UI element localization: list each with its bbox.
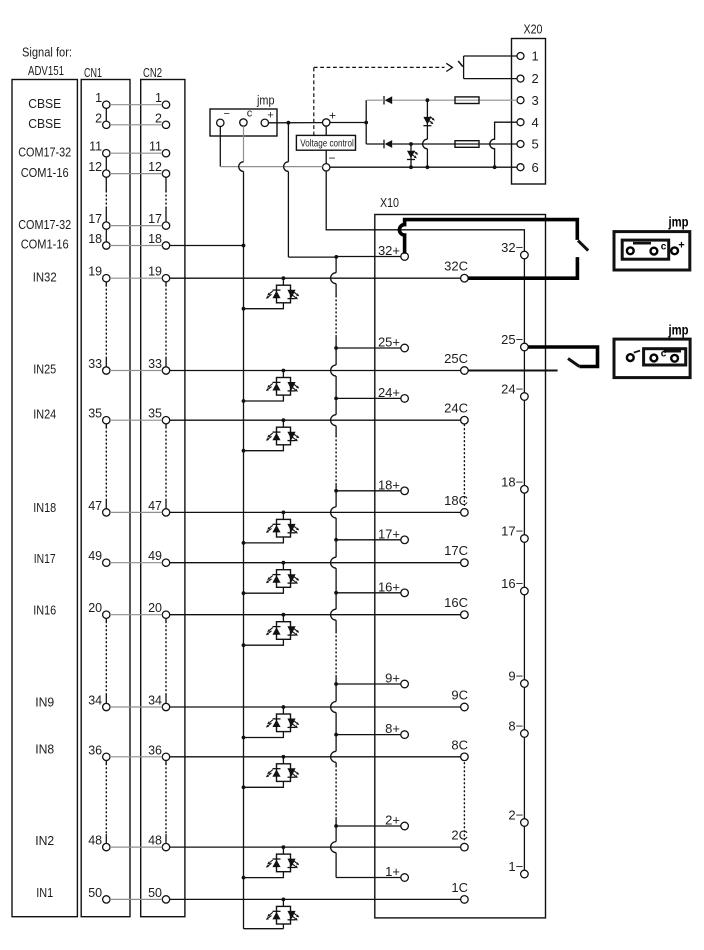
dotted continuation CN1 35..47 [105,424,107,427]
wire jmp- down [219,127,221,167]
svg-text:+: + [678,240,684,252]
wire CN1-12 to CN2-12 [110,173,162,175]
jumper legend jmp (minus-c position) [614,215,690,271]
X20 pin 5 [517,141,524,148]
svg-text:1: 1 [155,91,162,105]
wire CN1-36 to CN2-36 [110,756,162,758]
wire IN row to 9C [170,706,461,708]
svg-text:32C: 32C [444,259,468,274]
connector CN2 box [141,80,185,917]
voltage control box [296,135,355,150]
+ bus bend to 1+ [336,877,401,879]
svg-text:+: + [329,109,336,123]
wire X20-5 [366,143,384,145]
svg-text:49: 49 [88,549,102,563]
wire CN1-11 to CN2-11 [110,152,162,154]
wire IN row to 16C [170,614,461,616]
jumper header jmp (left) [210,109,277,136]
X20 pin 3 [517,97,524,104]
wire CN1-48 to CN2-48 [110,846,162,848]
svg-text:17−: 17− [501,524,523,539]
svg-text:16C: 16C [444,595,468,610]
svg-text:IN24: IN24 [33,407,56,422]
svg-text:IN16: IN16 [33,603,56,618]
svg-text:20: 20 [148,601,162,615]
switch blade 32 [578,241,588,251]
dashed actuation line from voltage control [313,67,315,135]
svg-text:33: 33 [88,357,102,371]
dotted continuation 24C..18C [463,425,465,506]
optocoupler IN9 [242,705,300,739]
svg-text:25C: 25C [444,351,468,366]
svg-text:32+: 32+ [378,243,400,258]
optocoupler IN25 [242,369,300,403]
svg-text:6: 6 [532,160,539,175]
wire jmp c down (c-bus upper grey part) [243,126,245,162]
diode D2 [383,140,385,149]
wire CN1-35 to CN2-35 [110,419,162,421]
svg-text:18−: 18− [501,474,523,489]
svg-text:c: c [247,107,253,119]
wire CN1-47 to CN2-47 [110,511,162,513]
wire IN row to 8C [170,756,461,758]
diode D1 [383,96,385,105]
wire CN1 link 11-12 [105,157,107,170]
wire VC+ to branch [330,122,366,124]
svg-text:9+: 9+ [385,671,400,686]
svg-text:IN1: IN1 [36,885,53,900]
svg-text:1C: 1C [451,880,468,895]
X20 pin 6 [517,164,524,171]
wire CN1-18 to CN2-18 [110,245,162,247]
wire CN1-19 to CN2-19 [110,277,162,279]
wire IN row to 2C [170,846,461,848]
svg-text:34: 34 [88,694,102,708]
svg-text:9C: 9C [451,688,468,703]
svg-text:2: 2 [155,111,162,125]
wire X20-4 down to pin6 line [498,121,517,123]
thick wire 32+ to disconnect switch [399,220,577,254]
wire IN row to 1C [170,898,461,900]
svg-text:2+: 2+ [385,813,400,828]
X20 pin 2 [517,75,524,82]
svg-text:48: 48 [88,834,102,848]
fuse F2 [455,141,479,148]
wire VC- to X20-6 [330,166,517,168]
c-bus bend to last optocoupler [244,928,284,930]
svg-text:11: 11 [149,140,162,154]
svg-text:CN1: CN1 [84,65,102,80]
svg-text:11: 11 [89,140,102,154]
svg-text:12: 12 [88,160,102,174]
svg-text:48: 48 [148,834,162,848]
dotted continuation CN2 20..34 [165,618,167,621]
wire CN1-34 to CN2-34 [110,706,162,708]
wire 25C stub [468,370,557,372]
svg-text:COM17-32: COM17-32 [18,217,71,232]
wire + bus to 16+ [334,591,338,595]
optocoupler IN17 [242,561,300,595]
svg-text:Voltage control: Voltage control [300,139,354,150]
svg-text:36: 36 [148,743,162,757]
svg-text:24−: 24− [501,382,523,397]
dotted continuation CN2 12..17 [165,177,167,191]
arrow head [446,63,452,71]
switch blade [458,61,463,67]
c-bus main vertical [243,171,245,928]
svg-text:Signal for:: Signal for: [22,45,72,60]
wire CN1 link 17-18 [105,229,107,242]
wire IN row to 24C [170,419,461,421]
svg-text:33: 33 [148,357,162,371]
optocoupler IN16 [242,613,300,647]
svg-text:COM1-16: COM1-16 [21,165,69,180]
wire IN row to 18C [170,511,461,513]
fuse F1 [455,97,479,104]
svg-text:17C: 17C [444,543,468,558]
svg-text:34: 34 [148,694,162,708]
voltage control - terminal [323,164,330,171]
wire CN1-1 to CN2-1 [110,104,162,106]
svg-text:25+: 25+ [378,335,400,350]
svg-text:20: 20 [88,601,102,615]
svg-text:8C: 8C [451,737,468,752]
wire + bus feeds 32+ [336,256,401,258]
minus bus vertical [523,259,525,343]
wire CN1-50 to CN2-50 [110,898,162,900]
svg-text:18: 18 [148,232,162,246]
svg-text:47: 47 [88,499,102,513]
dotted continuation 8C..2C [463,763,465,840]
svg-text:47: 47 [148,499,162,513]
wire + bus to 9+ [334,682,338,686]
svg-text:2: 2 [532,71,539,86]
c-bus hop over jmp- wire [239,162,244,172]
X20 pin 4 [517,119,524,126]
wire + bus to 25+ [334,346,338,350]
svg-text:IN32: IN32 [33,269,57,284]
wire jmp- to VC- (grey) [220,166,322,168]
svg-text:COM1-16: COM1-16 [21,237,69,252]
wire IN row to 25C [170,370,461,372]
svg-text:35: 35 [148,407,162,421]
wire + bus to 2+ [334,824,338,828]
svg-text:CBSE: CBSE [28,96,61,111]
wire + down from junction [287,123,289,162]
svg-text:X20: X20 [524,22,543,37]
svg-text:c: c [661,242,667,253]
wire + to bus top [288,256,336,258]
svg-text:24+: 24+ [378,385,400,400]
module box ADV151 [12,80,77,917]
svg-text:17: 17 [148,212,162,226]
dotted continuation CN1 19..33 [105,282,107,285]
svg-text:12: 12 [148,160,162,174]
svg-text:IN18: IN18 [33,500,56,515]
svg-text:3: 3 [532,93,539,108]
connector X10 box [375,215,546,918]
dotted continuation CN1 20..34 [105,618,107,621]
svg-text:CN2: CN2 [143,65,162,80]
dotted continuation CN2 36..48 [165,761,167,764]
optocoupler IN8 [242,755,300,789]
svg-text:2C: 2C [451,828,468,843]
left branch vertical (VC+ to diodes) [365,100,367,144]
svg-text:50: 50 [88,886,102,900]
svg-text:17+: 17+ [378,526,400,541]
svg-text:1: 1 [95,91,102,105]
thick wire 25- to switch [528,347,597,367]
LED L1 [426,100,428,139]
svg-text:CBSE: CBSE [28,116,61,131]
wire + bus to 8+ [334,733,338,737]
wire IN row to 17C [170,562,461,564]
wire IN row to 32C [170,277,461,279]
svg-text:2: 2 [95,111,102,125]
jmp terminal - [217,119,224,126]
optocoupler IN18 [242,511,300,545]
wire CN1-33 to CN2-33 [110,370,162,372]
svg-text:ADV151: ADV151 [28,63,64,78]
svg-text:+: + [267,110,273,122]
svg-text:50: 50 [148,886,162,900]
svg-text:16−: 16− [501,576,523,591]
wire CN1 link 1-2 [105,108,107,121]
svg-text:49: 49 [148,549,162,563]
switch contact to X20 1/2 [464,55,517,57]
svg-text:IN2: IN2 [35,833,54,848]
svg-text:IN8: IN8 [35,742,54,757]
jmp terminal c [240,119,247,126]
svg-text:25−: 25− [501,332,523,347]
svg-text:−: − [329,151,336,165]
svg-text:jmp: jmp [668,323,689,338]
switch blade 25 [568,359,579,367]
svg-text:17: 17 [88,212,102,226]
connector CN1 box [81,80,130,917]
X20 pin 1 [517,53,524,60]
svg-text:18: 18 [88,232,102,246]
optocoupler IN32 [242,276,300,310]
voltage control + terminal [323,119,330,126]
wire + bus to 24+ [334,397,338,401]
svg-text:36: 36 [88,743,102,757]
+ bus vertical [335,257,337,273]
svg-text:8+: 8+ [385,721,400,736]
optocoupler IN1 [266,898,299,929]
wire CN1-49 to CN2-49 [110,562,162,564]
jumper legend jmp (c-plus position) [614,323,690,378]
svg-text:18+: 18+ [378,477,400,492]
svg-text:jmp: jmp [256,94,274,108]
wire CN1-2 to CN2-2 [110,124,162,126]
svg-text:4: 4 [532,115,539,130]
wire CN1-20 to CN2-20 [110,614,162,616]
wire COM1-16 row18 to c-bus [170,245,244,247]
wire CN1-17 to CN2-17 [110,225,162,227]
jmp terminal + [261,119,268,126]
svg-text:19: 19 [148,265,162,279]
svg-text:35: 35 [88,407,102,421]
svg-text:−: − [224,108,230,120]
svg-text:IN25: IN25 [33,362,56,377]
wire + bus to 17+ [334,538,338,542]
wire VC- down and to 32- [326,171,524,251]
svg-text:5: 5 [532,137,539,152]
thick wire 32C to switch stub [468,257,577,278]
svg-text:X10: X10 [380,195,399,210]
svg-text:IN17: IN17 [34,551,56,566]
optocoupler IN24 [242,418,300,452]
optocoupler IN2 [242,845,300,879]
dotted continuation CN1 36..48 [105,761,107,764]
dotted continuation CN2 19..33 [165,282,167,285]
svg-text:COM17-32: COM17-32 [18,144,71,159]
wire jmp+ to VC+ [269,122,323,124]
connector X20 box [512,39,546,185]
svg-text:IN9: IN9 [35,695,54,710]
svg-text:jmp: jmp [668,215,689,230]
svg-text:24C: 24C [444,401,468,416]
wire X20-3 grey [367,99,384,101]
svg-text:32−: 32− [501,240,523,255]
svg-text:1: 1 [532,49,539,64]
LED L2 [410,144,412,167]
wire + bus to 18+ [334,489,338,493]
svg-text:c: c [661,349,667,360]
svg-text:1+: 1+ [385,864,400,879]
junction node pin3 [426,98,430,102]
svg-text:19: 19 [88,265,102,279]
svg-text:16+: 16+ [378,579,400,594]
dotted continuation CN2 35..47 [165,424,167,427]
dotted continuation CN1 12..17 [105,177,107,191]
